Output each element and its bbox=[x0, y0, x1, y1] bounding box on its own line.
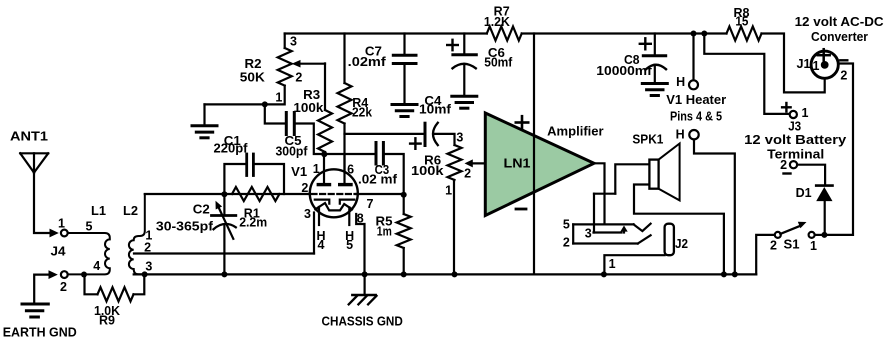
svg-text:1: 1 bbox=[810, 239, 817, 253]
svg-text:1: 1 bbox=[58, 217, 65, 231]
svg-text:100k: 100k bbox=[411, 164, 444, 178]
svg-text:2: 2 bbox=[144, 240, 151, 254]
svg-text:J1: J1 bbox=[797, 57, 811, 71]
svg-text:2: 2 bbox=[840, 69, 847, 83]
svg-text:10mf: 10mf bbox=[419, 103, 452, 117]
svg-text:3: 3 bbox=[456, 131, 463, 145]
svg-text:2: 2 bbox=[295, 71, 302, 85]
svg-text:4: 4 bbox=[318, 238, 325, 252]
svg-text:J2: J2 bbox=[675, 237, 688, 251]
svg-text:22k: 22k bbox=[352, 106, 372, 120]
svg-text:V1: V1 bbox=[291, 165, 307, 179]
svg-text:2: 2 bbox=[464, 167, 471, 181]
svg-text:3: 3 bbox=[304, 207, 311, 221]
svg-text:R9: R9 bbox=[99, 314, 115, 328]
svg-text:50mf: 50mf bbox=[484, 55, 513, 69]
svg-text:4: 4 bbox=[93, 259, 100, 273]
svg-text:1.2K: 1.2K bbox=[484, 15, 510, 29]
svg-text:6: 6 bbox=[347, 162, 354, 176]
svg-text:ANT1: ANT1 bbox=[10, 130, 48, 144]
svg-text:3: 3 bbox=[290, 34, 297, 48]
svg-text:.02 mf: .02 mf bbox=[358, 173, 398, 187]
svg-text:12 volt AC-DC: 12 volt AC-DC bbox=[795, 14, 885, 29]
svg-text:L1: L1 bbox=[91, 204, 106, 218]
svg-text:1m: 1m bbox=[377, 225, 392, 239]
svg-text:2: 2 bbox=[780, 158, 787, 172]
svg-text:12 volt Battery: 12 volt Battery bbox=[744, 132, 847, 147]
svg-text:1: 1 bbox=[313, 162, 320, 176]
svg-text:Terminal: Terminal bbox=[767, 147, 824, 162]
svg-text:Pins 4 & 5: Pins 4 & 5 bbox=[670, 109, 722, 124]
svg-text:Amplifier: Amplifier bbox=[547, 124, 604, 138]
svg-text:1: 1 bbox=[813, 59, 820, 73]
svg-text:3: 3 bbox=[585, 227, 592, 241]
svg-text:Converter: Converter bbox=[811, 29, 868, 44]
svg-text:5: 5 bbox=[563, 217, 570, 231]
svg-text:2: 2 bbox=[770, 239, 777, 253]
svg-text:220pf: 220pf bbox=[214, 142, 249, 156]
svg-text:1: 1 bbox=[275, 91, 282, 105]
svg-text:C2: C2 bbox=[193, 203, 210, 217]
svg-text:15: 15 bbox=[735, 14, 748, 28]
svg-text:D1: D1 bbox=[796, 186, 812, 200]
svg-text:1: 1 bbox=[802, 106, 809, 120]
svg-text:CHASSIS GND: CHASSIS GND bbox=[322, 315, 403, 329]
svg-text:.02mf: .02mf bbox=[348, 55, 387, 69]
svg-text:30-365pf: 30-365pf bbox=[156, 220, 214, 234]
svg-text:2.2m: 2.2m bbox=[239, 215, 267, 229]
svg-text:10000mf: 10000mf bbox=[596, 64, 652, 78]
svg-text:EARTH GND: EARTH GND bbox=[3, 326, 77, 340]
svg-text:300pf: 300pf bbox=[276, 144, 309, 158]
svg-text:2: 2 bbox=[301, 181, 308, 195]
svg-text:100k: 100k bbox=[293, 101, 323, 115]
svg-text:7: 7 bbox=[367, 197, 374, 211]
svg-text:J4: J4 bbox=[51, 245, 66, 259]
svg-text:R2: R2 bbox=[245, 57, 262, 71]
svg-text:L2: L2 bbox=[123, 204, 138, 218]
svg-text:8: 8 bbox=[357, 212, 364, 226]
svg-text:LN1: LN1 bbox=[504, 157, 531, 171]
svg-text:2: 2 bbox=[60, 280, 67, 294]
svg-text:SPK1: SPK1 bbox=[632, 133, 663, 147]
svg-text:H: H bbox=[676, 128, 685, 142]
svg-text:3: 3 bbox=[145, 260, 152, 274]
svg-text:V1 Heater: V1 Heater bbox=[666, 92, 726, 107]
svg-text:50K: 50K bbox=[240, 70, 265, 84]
svg-text:H: H bbox=[676, 75, 685, 89]
svg-text:5: 5 bbox=[346, 238, 353, 252]
svg-text:1: 1 bbox=[445, 184, 452, 198]
svg-text:S1: S1 bbox=[784, 238, 800, 252]
svg-text:5: 5 bbox=[86, 220, 93, 234]
svg-text:1: 1 bbox=[609, 257, 616, 271]
svg-text:2: 2 bbox=[563, 236, 570, 250]
